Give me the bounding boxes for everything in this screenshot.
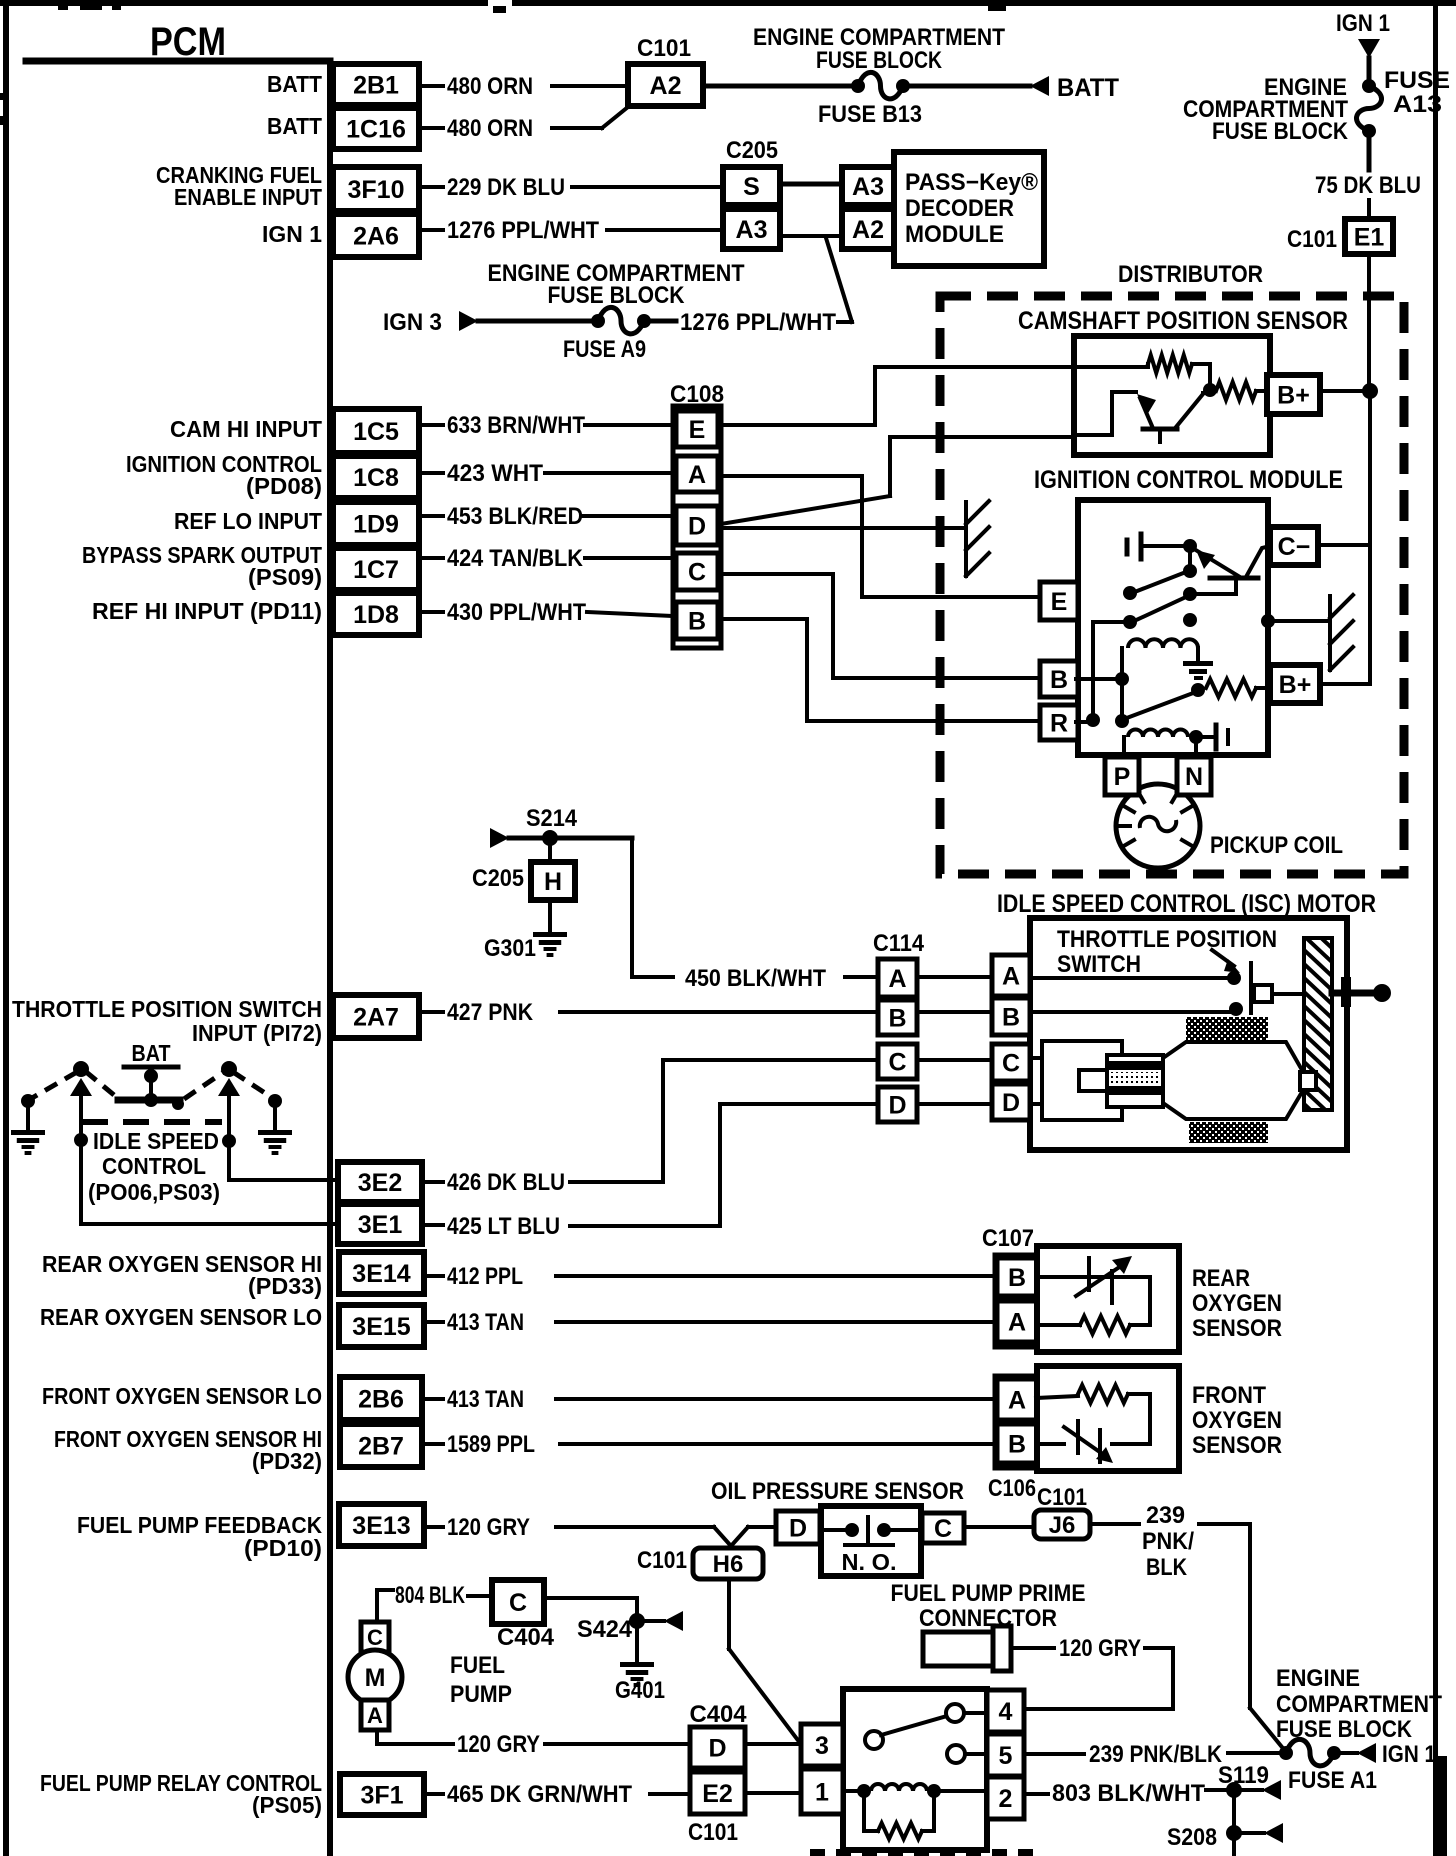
svg-text:B: B	[888, 1005, 906, 1033]
svg-text:120 GRY: 120 GRY	[1059, 1635, 1141, 1662]
svg-text:FUSE BLOCK: FUSE BLOCK	[548, 282, 686, 309]
svg-text:FRONT: FRONT	[1192, 1382, 1266, 1409]
svg-text:A3: A3	[852, 173, 884, 201]
svg-text:COMPARTMENT: COMPARTMENT	[1276, 1691, 1442, 1718]
svg-text:C: C	[888, 1049, 906, 1077]
svg-text:C404: C404	[690, 1701, 748, 1728]
svg-text:1C7: 1C7	[353, 556, 399, 584]
svg-text:H6: H6	[713, 1551, 744, 1578]
svg-text:D: D	[688, 513, 706, 541]
svg-text:1D8: 1D8	[353, 601, 399, 629]
svg-text:M: M	[365, 1664, 386, 1692]
svg-text:C101: C101	[637, 35, 691, 62]
svg-text:C: C	[688, 559, 706, 587]
svg-text:430 PPL/WHT: 430 PPL/WHT	[447, 599, 586, 626]
svg-text:1C8: 1C8	[353, 464, 399, 492]
svg-text:CAMSHAFT POSITION SENSOR: CAMSHAFT POSITION SENSOR	[1018, 307, 1348, 335]
svg-text:J6: J6	[1049, 1512, 1076, 1539]
svg-text:E: E	[689, 416, 706, 444]
svg-text:C101: C101	[688, 1819, 738, 1846]
svg-text:B+: B+	[1279, 671, 1312, 699]
svg-text:PNK/: PNK/	[1142, 1528, 1194, 1555]
svg-text:FUSE: FUSE	[1384, 67, 1450, 94]
svg-text:1589 PPL: 1589 PPL	[447, 1431, 535, 1458]
svg-text:A2: A2	[650, 72, 682, 100]
svg-text:A: A	[1008, 1309, 1026, 1337]
svg-text:2: 2	[999, 1785, 1013, 1813]
svg-text:IGN 1: IGN 1	[1336, 10, 1390, 37]
svg-text:C: C	[1002, 1050, 1020, 1078]
svg-text:(PD10): (PD10)	[244, 1535, 322, 1561]
svg-text:A: A	[1008, 1387, 1026, 1415]
svg-text:B+: B+	[1277, 382, 1310, 410]
svg-text:120 GRY: 120 GRY	[457, 1731, 540, 1758]
svg-text:SWITCH: SWITCH	[1057, 951, 1141, 978]
svg-text:427 PNK: 427 PNK	[447, 999, 534, 1026]
svg-text:CAM HI INPUT: CAM HI INPUT	[170, 416, 322, 442]
svg-text:C: C	[367, 1625, 383, 1650]
svg-text:MODULE: MODULE	[905, 221, 1004, 248]
svg-text:SENSOR: SENSOR	[1192, 1315, 1282, 1342]
svg-text:DISTRIBUTOR: DISTRIBUTOR	[1118, 261, 1263, 288]
svg-text:ENGINE: ENGINE	[1276, 1665, 1360, 1692]
svg-text:OXYGEN: OXYGEN	[1192, 1290, 1282, 1317]
svg-text:B: B	[688, 608, 706, 636]
svg-text:2A7: 2A7	[353, 1004, 399, 1032]
svg-text:C205: C205	[472, 865, 524, 892]
svg-text:804 BLK: 804 BLK	[395, 1582, 465, 1609]
svg-text:PICKUP COIL: PICKUP COIL	[1210, 832, 1343, 859]
svg-text:B: B	[1050, 666, 1068, 694]
svg-text:OXYGEN: OXYGEN	[1192, 1407, 1282, 1434]
svg-text:PUMP: PUMP	[450, 1681, 512, 1708]
svg-text:(PD08): (PD08)	[246, 473, 322, 499]
svg-text:FUSE A1: FUSE A1	[1288, 1767, 1377, 1794]
svg-text:3F1: 3F1	[360, 1782, 403, 1810]
svg-text:B: B	[1008, 1264, 1026, 1292]
svg-text:1276 PPL/WHT: 1276 PPL/WHT	[680, 309, 836, 336]
svg-text:D: D	[1002, 1089, 1020, 1117]
svg-text:C101: C101	[1287, 226, 1337, 253]
svg-text:803 BLK/WHT: 803 BLK/WHT	[1052, 1780, 1205, 1807]
svg-text:3E15: 3E15	[352, 1313, 410, 1341]
svg-text:C101: C101	[637, 1547, 687, 1574]
svg-text:(PS09): (PS09)	[248, 564, 322, 590]
svg-text:C−: C−	[1278, 533, 1311, 561]
svg-text:A3: A3	[736, 216, 768, 244]
svg-text:FUEL: FUEL	[450, 1652, 505, 1679]
svg-text:450 BLK/WHT: 450 BLK/WHT	[685, 965, 826, 992]
svg-text:IDLE SPEED CONTROL (ISC) MOTOR: IDLE SPEED CONTROL (ISC) MOTOR	[997, 890, 1376, 918]
svg-text:BLK: BLK	[1146, 1554, 1188, 1581]
svg-text:IGN 1: IGN 1	[262, 221, 322, 247]
svg-text:239: 239	[1146, 1502, 1185, 1529]
svg-text:465 DK GRN/WHT: 465 DK GRN/WHT	[447, 1781, 632, 1808]
svg-text:N: N	[1185, 763, 1203, 791]
svg-text:3E14: 3E14	[352, 1260, 410, 1288]
svg-text:INPUT (PI72): INPUT (PI72)	[192, 1020, 322, 1046]
svg-text:FUSE A9: FUSE A9	[563, 336, 646, 363]
svg-text:THROTTLE POSITION: THROTTLE POSITION	[1057, 926, 1277, 953]
svg-text:CONNECTOR: CONNECTOR	[919, 1605, 1057, 1632]
svg-text:425 LT BLU: 425 LT BLU	[447, 1213, 560, 1240]
svg-text:D: D	[708, 1735, 726, 1763]
svg-text:A: A	[367, 1703, 383, 1728]
svg-text:C101: C101	[1037, 1484, 1087, 1511]
svg-text:413 TAN: 413 TAN	[447, 1309, 524, 1336]
svg-text:3: 3	[815, 1732, 829, 1760]
svg-text:IDLE SPEED: IDLE SPEED	[93, 1128, 219, 1154]
svg-text:(PD32): (PD32)	[252, 1448, 322, 1474]
svg-text:413 TAN: 413 TAN	[447, 1386, 524, 1413]
svg-text:412 PPL: 412 PPL	[447, 1263, 523, 1290]
svg-text:C107: C107	[982, 1225, 1034, 1252]
svg-text:S208: S208	[1167, 1824, 1217, 1851]
svg-text:S214: S214	[526, 805, 578, 832]
svg-text:(PD33): (PD33)	[248, 1273, 322, 1299]
svg-text:FUSE B13: FUSE B13	[818, 101, 922, 128]
svg-text:SENSOR: SENSOR	[1192, 1432, 1282, 1459]
svg-text:E2: E2	[702, 1780, 733, 1808]
svg-text:120 GRY: 120 GRY	[447, 1514, 530, 1541]
svg-text:A: A	[888, 965, 906, 993]
svg-text:C205: C205	[726, 137, 778, 164]
svg-text:BATT: BATT	[267, 71, 322, 97]
svg-text:PASS−Key®: PASS−Key®	[905, 169, 1038, 196]
svg-text:BATT: BATT	[1057, 74, 1119, 102]
svg-text:FUSE BLOCK: FUSE BLOCK	[1212, 118, 1349, 145]
svg-text:FUSE BLOCK: FUSE BLOCK	[816, 47, 943, 74]
svg-text:2B1: 2B1	[353, 72, 399, 100]
svg-text:C404: C404	[497, 1624, 555, 1651]
svg-text:229 DK BLU: 229 DK BLU	[447, 174, 565, 201]
svg-text:CONTROL: CONTROL	[102, 1153, 206, 1179]
svg-text:A2: A2	[852, 216, 884, 244]
svg-text:424 TAN/BLK: 424 TAN/BLK	[447, 545, 584, 572]
svg-text:A: A	[1002, 963, 1020, 991]
svg-text:D: D	[888, 1092, 906, 1120]
svg-text:FUSE BLOCK: FUSE BLOCK	[1276, 1716, 1413, 1743]
svg-text:3E1: 3E1	[358, 1211, 403, 1239]
svg-text:(PO06,PS03): (PO06,PS03)	[88, 1179, 220, 1205]
svg-text:S424: S424	[577, 1616, 633, 1643]
svg-text:2A6: 2A6	[353, 223, 399, 251]
svg-text:FUEL PUMP PRIME: FUEL PUMP PRIME	[891, 1580, 1086, 1607]
svg-text:C114: C114	[873, 930, 925, 957]
svg-text:A: A	[688, 461, 706, 489]
svg-text:C106: C106	[988, 1475, 1036, 1502]
svg-text:E1: E1	[1354, 224, 1385, 252]
svg-text:3F10: 3F10	[348, 176, 405, 204]
svg-text:1C16: 1C16	[346, 116, 406, 144]
svg-text:480 ORN: 480 ORN	[447, 115, 533, 142]
svg-text:1C5: 1C5	[353, 418, 399, 446]
svg-text:480 ORN: 480 ORN	[447, 73, 533, 100]
svg-text:1276 PPL/WHT: 1276 PPL/WHT	[447, 217, 599, 244]
svg-text:A13: A13	[1393, 91, 1442, 118]
svg-text:D: D	[789, 1515, 807, 1543]
svg-text:G301: G301	[484, 935, 536, 962]
svg-text:B: B	[1002, 1004, 1020, 1032]
svg-text:75 DK BLU: 75 DK BLU	[1315, 172, 1421, 199]
svg-text:N. O.: N. O.	[842, 1549, 897, 1575]
svg-text:4: 4	[999, 1698, 1013, 1726]
svg-text:BAT: BAT	[132, 1040, 171, 1066]
svg-text:THROTTLE POSITION SWITCH: THROTTLE POSITION SWITCH	[12, 996, 322, 1022]
svg-text:DECODER: DECODER	[905, 195, 1014, 222]
svg-text:S: S	[743, 173, 760, 201]
svg-text:REAR: REAR	[1192, 1265, 1250, 1292]
svg-text:R: R	[1050, 710, 1068, 738]
svg-text:ENABLE INPUT: ENABLE INPUT	[174, 184, 322, 210]
svg-text:IGN 1: IGN 1	[1382, 1741, 1436, 1768]
svg-text:PCM: PCM	[150, 20, 226, 64]
svg-text:G401: G401	[615, 1677, 665, 1704]
svg-text:IGNITION CONTROL MODULE: IGNITION CONTROL MODULE	[1034, 466, 1343, 494]
svg-text:FRONT OXYGEN SENSOR LO: FRONT OXYGEN SENSOR LO	[42, 1383, 322, 1409]
svg-text:5: 5	[999, 1742, 1013, 1770]
svg-text:B: B	[1008, 1431, 1026, 1459]
svg-text:BATT: BATT	[267, 113, 322, 139]
svg-text:REF LO INPUT: REF LO INPUT	[174, 508, 322, 534]
svg-text:C: C	[509, 1589, 527, 1617]
svg-text:REF HI INPUT (PD11): REF HI INPUT (PD11)	[92, 598, 322, 624]
svg-text:633 BRN/WHT: 633 BRN/WHT	[447, 412, 585, 439]
svg-text:1D9: 1D9	[353, 511, 399, 539]
svg-text:OIL PRESSURE SENSOR: OIL PRESSURE SENSOR	[711, 1478, 964, 1505]
svg-text:423 WHT: 423 WHT	[447, 460, 543, 487]
svg-text:IGN 3: IGN 3	[383, 309, 442, 336]
svg-text:239 PNK/BLK: 239 PNK/BLK	[1089, 1741, 1223, 1768]
svg-text:3E2: 3E2	[358, 1169, 402, 1197]
svg-text:3E13: 3E13	[352, 1512, 410, 1540]
svg-text:1: 1	[815, 1779, 829, 1807]
svg-text:2B6: 2B6	[358, 1386, 404, 1414]
svg-text:P: P	[1114, 763, 1131, 791]
svg-text:H: H	[544, 868, 562, 896]
svg-text:S119: S119	[1218, 1762, 1269, 1789]
svg-text:2B7: 2B7	[358, 1433, 404, 1461]
svg-text:(PS05): (PS05)	[252, 1792, 322, 1818]
svg-text:C: C	[934, 1515, 952, 1543]
svg-text:426 DK BLU: 426 DK BLU	[447, 1169, 565, 1196]
svg-text:REAR OXYGEN SENSOR LO: REAR OXYGEN SENSOR LO	[40, 1304, 322, 1330]
svg-text:453 BLK/RED: 453 BLK/RED	[447, 503, 583, 530]
svg-text:E: E	[1051, 588, 1068, 616]
